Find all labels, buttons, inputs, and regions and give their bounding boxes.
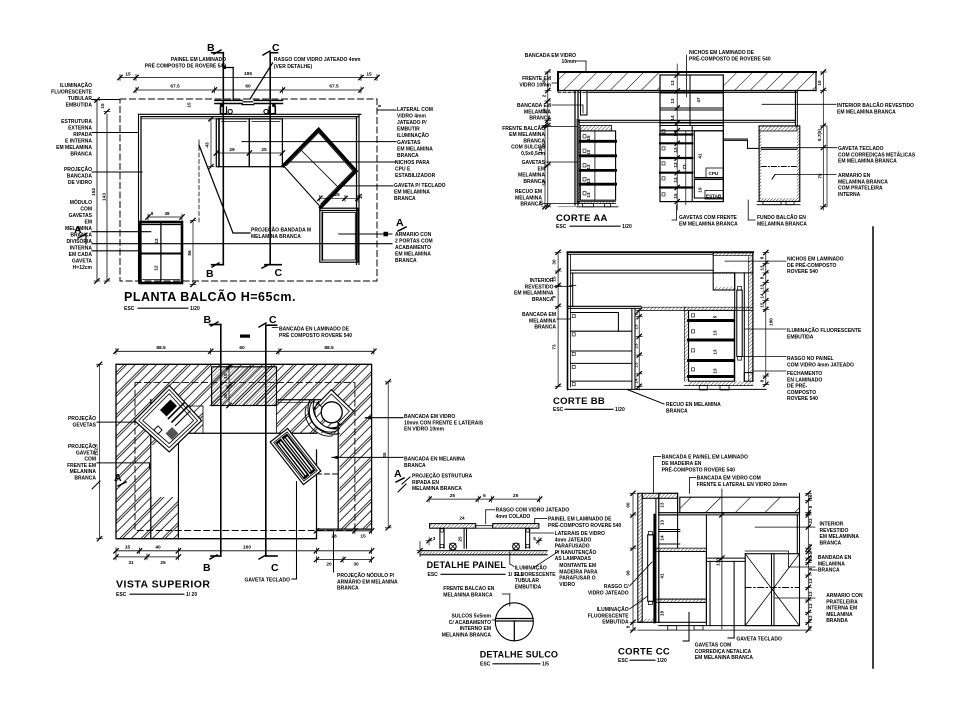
- dim 29 25: [216, 152, 282, 154]
- svg-text:DETALHE PAINEL: DETALHE PAINEL: [427, 560, 507, 570]
- niche dim line vertical: [676, 64, 678, 210]
- svg-text:BRANCA: BRANCA: [520, 202, 542, 208]
- svg-text:FLUORESCENTE: FLUORESCENTE: [51, 90, 93, 96]
- left dims CC: [632, 493, 634, 630]
- nichos right wall zipper BB: [749, 256, 753, 382]
- svg-text:ACABAMENTO: ACABAMENTO: [395, 245, 431, 251]
- svg-text:13: 13: [808, 615, 813, 621]
- view: VISTA SUPERIOR: [67, 314, 484, 598]
- svg-text:BANCADA EM VIDRO: BANCADA EM VIDRO: [525, 53, 576, 59]
- recuo label BB: [627, 389, 664, 404]
- svg-text:BANCADA EN LAMINADO DE: BANCADA EN LAMINADO DE: [279, 327, 350, 333]
- left label leaders: [92, 99, 120, 101]
- svg-text:VIDRO JATEADO: VIDRO JATEADO: [588, 590, 629, 596]
- left module base: [577, 202, 616, 204]
- svg-text:AS LAMPADAS: AS LAMPADAS: [555, 556, 592, 562]
- svg-text:PROJEÇÃO: PROJEÇÃO: [68, 443, 96, 450]
- svg-text:CORTE BB: CORTE BB: [553, 396, 605, 407]
- svg-text:25: 25: [450, 493, 456, 499]
- svg-text:ESC: ESC: [116, 592, 127, 598]
- diamond niche cpu rotated: [283, 129, 356, 207]
- svg-text:10mm CON FRENTE E LATERAIS: 10mm CON FRENTE E LATERAIS: [404, 420, 484, 426]
- svg-text:16: 16: [808, 494, 813, 500]
- svg-text:MELAMINA: MELAMINA: [65, 226, 92, 232]
- svg-text:8: 8: [760, 276, 765, 279]
- svg-text:RASGO C/: RASGO C/: [604, 584, 629, 590]
- right module base: [757, 201, 800, 203]
- svg-text:13: 13: [586, 178, 591, 184]
- svg-text:MONTANTE EM: MONTANTE EM: [559, 563, 596, 569]
- svg-text:H=12cm: H=12cm: [73, 265, 93, 271]
- dim row2: [136, 89, 361, 91]
- left column cells CC: [655, 498, 657, 622]
- left monitor plan: [135, 385, 202, 452]
- middle divider BB: [631, 308, 633, 389]
- svg-text:60: 60: [239, 345, 245, 351]
- svg-text:13: 13: [634, 324, 639, 330]
- svg-text:31: 31: [128, 560, 134, 566]
- top bar hatch CC: [642, 493, 677, 498]
- svg-text:EXTERNA: EXTERNA: [68, 126, 92, 132]
- svg-text:MELAMINA BRANCA: MELAMINA BRANCA: [838, 179, 888, 185]
- svg-text:BRANCA: BRANCA: [532, 297, 554, 303]
- inner vline under band: [572, 273, 574, 306]
- svg-text:23: 23: [808, 518, 813, 524]
- inner boundary lines: [178, 432, 316, 434]
- plan wall left: [138, 114, 140, 283]
- counter hatch strip CC: [656, 548, 707, 551]
- bancada melamina leader CC: [745, 550, 788, 552]
- svg-text:JATEADO P/: JATEADO P/: [397, 120, 427, 126]
- svg-text:BRANCA: BRANCA: [70, 233, 92, 239]
- svg-text:43: 43: [205, 142, 211, 148]
- svg-text:13: 13: [713, 349, 718, 355]
- svg-text:5: 5: [713, 315, 718, 318]
- svg-text:BRANCA: BRANCA: [534, 325, 556, 331]
- svg-text:GAVETAS: GAVETAS: [522, 160, 546, 166]
- svg-text:SULCOS 5x5mm: SULCOS 5x5mm: [452, 614, 492, 620]
- svg-text:MELAMINA: MELAMINA: [515, 195, 542, 201]
- svg-text:15: 15: [586, 135, 591, 141]
- right wall CC: [796, 515, 798, 554]
- bottom CC: [638, 619, 655, 623]
- vdim right vista: [387, 382, 389, 528]
- svg-text:PRATELEIRA: PRATELEIRA: [826, 599, 858, 605]
- outer outline vista: [116, 364, 372, 538]
- center vline CC: [721, 489, 723, 629]
- svg-text:BRANCA: BRANCA: [529, 116, 551, 122]
- leader armario: [339, 233, 392, 235]
- svg-text:88.5: 88.5: [324, 345, 334, 351]
- page divider vertical line: [872, 227, 874, 668]
- svg-text:6: 6: [483, 493, 486, 499]
- svg-text:180: 180: [769, 318, 774, 326]
- svg-text:EMBUTIDA: EMBUTIDA: [515, 584, 542, 590]
- svg-text:FLUORESCENTE: FLUORESCENTE: [588, 613, 630, 619]
- svg-text:RASGO COM VIDRO JATEADO: RASGO COM VIDRO JATEADO: [496, 508, 570, 514]
- view: PLANTA BALCAO plan: [74, 42, 406, 287]
- svg-text:3: 3: [433, 536, 436, 541]
- drawer unit BB: [684, 307, 688, 381]
- svg-text:ROVERE 540: ROVERE 540: [787, 396, 818, 402]
- svg-text:10mm: 10mm: [562, 59, 577, 65]
- svg-text:8: 8: [808, 625, 813, 628]
- svg-text:GEVETAS: GEVETAS: [72, 422, 96, 428]
- svg-text:B: B: [204, 314, 213, 326]
- svg-text:GAVETA: GAVETA: [72, 259, 92, 265]
- niche module mid-top: [216, 119, 249, 167]
- svg-text:12: 12: [154, 265, 159, 271]
- svg-text:PARAFUSAR O: PARAFUSAR O: [559, 576, 595, 582]
- svg-text:FRENTE EM: FRENTE EM: [67, 463, 96, 469]
- svg-text:ESTRUTURA: ESTRUTURA: [61, 119, 92, 125]
- svg-text:PROJEÇÃO BANDADA M: PROJEÇÃO BANDADA M: [251, 227, 311, 234]
- svg-text:DE PRÉ-COMPOSTO: DE PRÉ-COMPOSTO: [787, 261, 836, 269]
- svg-text:MELANINA: MELANINA: [70, 469, 97, 475]
- svg-text:1/20: 1/20: [622, 224, 632, 230]
- svg-text:LATERAIS DE VIDRO: LATERAIS DE VIDRO: [555, 531, 605, 537]
- svg-text:EM MELAMINA: EM MELAMINA: [395, 252, 431, 258]
- left module drawers: [580, 131, 615, 200]
- svg-text:CORREDIÇA NETALICA: CORREDIÇA NETALICA: [695, 649, 752, 655]
- svg-text:MELAMINA BRANCA: MELAMINA BRANCA: [251, 234, 301, 240]
- armario CC: [745, 554, 799, 626]
- labels CC bottom: [733, 561, 735, 638]
- mid dim BB: [638, 310, 640, 390]
- svg-text:1/ 20: 1/ 20: [186, 592, 197, 598]
- dense glass block: [212, 367, 277, 406]
- svg-text:14: 14: [358, 194, 364, 200]
- svg-text:EMBUTIDA: EMBUTIDA: [66, 103, 93, 109]
- svg-text:BANCADA EN MELANINA: BANCADA EN MELANINA: [404, 457, 466, 463]
- view: DETALHE SULCO: [442, 586, 558, 668]
- counter BB: [568, 305, 642, 307]
- svg-text:28: 28: [331, 534, 337, 540]
- svg-text:VISTA SUPERIOR: VISTA SUPERIOR: [116, 579, 211, 591]
- svg-text:REVESTIDO: REVESTIDO: [820, 528, 849, 534]
- svg-text:CPU: CPU: [709, 171, 719, 176]
- svg-text:FRENTE E LATERAL EN VIDRO 10mm: FRENTE E LATERAL EN VIDRO 10mm: [697, 482, 788, 488]
- svg-text:15: 15: [760, 302, 765, 308]
- svg-text:CORTE AA: CORTE AA: [556, 213, 608, 224]
- svg-text:BRANCA: BRANCA: [820, 540, 842, 546]
- svg-text:13: 13: [760, 265, 765, 271]
- svg-text:130: 130: [716, 558, 721, 566]
- panel clips right: [272, 104, 275, 107]
- svg-text:BANDADA EN: BANDADA EN: [818, 555, 852, 561]
- svg-text:18: 18: [817, 80, 822, 86]
- svg-text:PROJEÇÃO: PROJEÇÃO: [68, 415, 96, 422]
- right wall corte AA: [795, 91, 797, 126]
- svg-text:41: 41: [660, 573, 665, 579]
- right dims CC: [807, 493, 809, 630]
- svg-text:BRANCA: BRANCA: [395, 258, 417, 264]
- svg-text:BANCADA EM: BANCADA EM: [517, 103, 551, 109]
- svg-text:CPU E: CPU E: [395, 167, 411, 173]
- svg-text:ARMARIO CON: ARMARIO CON: [395, 232, 432, 238]
- view: CORTE BB: [514, 250, 862, 414]
- svg-text:BRANCA: BRANCA: [818, 568, 840, 574]
- svg-text:COM: COM: [80, 207, 92, 213]
- svg-text:RIPADA EN: RIPADA EN: [412, 480, 439, 486]
- svg-text:15: 15: [125, 72, 131, 78]
- svg-text:RECUO EM: RECUO EM: [515, 189, 542, 195]
- svg-text:P/ NANUTENÇÃO: P/ NANUTENÇÃO: [555, 549, 597, 556]
- svg-text:25: 25: [160, 560, 166, 566]
- svg-text:GAVETA TECLADO: GAVETA TECLADO: [245, 578, 291, 584]
- top panel laminado bar: [215, 99, 242, 101]
- thick black inner wall CC: [653, 515, 655, 622]
- outer shape vista hatched bands: [116, 364, 178, 538]
- svg-text:EM MELAMINA: EM MELAMINA: [509, 132, 545, 138]
- top band bottom: [571, 269, 714, 271]
- svg-text:160: 160: [243, 544, 251, 550]
- svg-text:56: 56: [187, 250, 193, 256]
- svg-text:TUBULAR: TUBULAR: [68, 96, 93, 102]
- step under counter: [723, 138, 747, 140]
- svg-text:MELAMINA BRANCA: MELAMINA BRANCA: [412, 486, 462, 492]
- svg-text:29: 29: [229, 147, 235, 153]
- outer walls BB: [568, 251, 754, 253]
- svg-text:DIVISÓRIA: DIVISÓRIA: [66, 237, 92, 245]
- svg-text:14: 14: [670, 115, 675, 121]
- svg-text:35: 35: [382, 452, 387, 458]
- svg-text:1/20: 1/20: [657, 658, 667, 664]
- svg-text:DE VIDRO: DE VIDRO: [68, 180, 92, 186]
- armario leader CC: [775, 597, 815, 599]
- svg-text:B: B: [206, 268, 215, 280]
- proj modulo armario label: [333, 532, 335, 572]
- svg-text:13: 13: [634, 343, 639, 349]
- long leader line A-A: [92, 243, 392, 245]
- svg-text:18: 18: [660, 611, 665, 617]
- svg-text:EM: EM: [85, 220, 93, 226]
- bottom bar painel: [420, 550, 547, 552]
- svg-text:COMPOSTO: COMPOSTO: [787, 390, 816, 396]
- svg-text:INTERIOR: INTERIOR: [530, 278, 554, 284]
- svg-text:BRANCA: BRANCA: [523, 179, 545, 185]
- svg-text:LATERAL COM: LATERAL COM: [397, 107, 433, 113]
- svg-text:INTERIOR: INTERIOR: [820, 522, 844, 528]
- svg-text:FRENTE BALCAO EN: FRENTE BALCAO EN: [443, 586, 495, 592]
- svg-text:CORTE CC: CORTE CC: [618, 647, 670, 658]
- svg-text:88.5: 88.5: [156, 345, 166, 351]
- svg-text:15: 15: [100, 103, 105, 109]
- svg-text:98: 98: [626, 570, 631, 576]
- armario plan right-bottom: [320, 208, 358, 262]
- svg-text:EM MELAMINA: EM MELAMINA: [394, 190, 430, 196]
- svg-text:(VER DETALHE): (VER DETALHE): [274, 64, 313, 70]
- svg-text:13: 13: [634, 362, 639, 368]
- svg-text:EM MELANINA BRANCA: EM MELANINA BRANCA: [695, 655, 754, 661]
- svg-text:13: 13: [660, 520, 665, 526]
- svg-text:1.5: 1.5: [808, 551, 813, 558]
- svg-text:FUNDO BALCÃO EN: FUNDO BALCÃO EN: [757, 214, 806, 221]
- svg-text:PROJEÇÃO ESTRUTURA: PROJEÇÃO ESTRUTURA: [412, 473, 473, 480]
- svg-text:ESC: ESC: [480, 662, 491, 668]
- nichos box top right BB: [713, 253, 753, 273]
- left wall zipper CC: [638, 493, 642, 622]
- svg-text:GAVETA P/ TECLADO: GAVETA P/ TECLADO: [394, 183, 446, 189]
- svg-text:VIDRO 10mm: VIDRO 10mm: [519, 82, 551, 88]
- svg-text:B: B: [207, 42, 216, 54]
- svg-text:EN VIDRO 10mm: EN VIDRO 10mm: [404, 427, 445, 433]
- svg-text:8: 8: [626, 625, 631, 628]
- svg-text:2: 2: [542, 94, 547, 97]
- svg-text:EM CADA: EM CADA: [69, 252, 93, 258]
- svg-text:2 PORTAS COM: 2 PORTAS COM: [395, 239, 433, 245]
- svg-text:13: 13: [760, 284, 765, 290]
- svg-text:1/20: 1/20: [615, 407, 625, 413]
- top dim vista: [116, 350, 374, 352]
- svg-text:MELAMINA: MELAMINA: [529, 318, 556, 324]
- svg-text:1/ 12.5: 1/ 12.5: [508, 572, 524, 578]
- svg-text:BRANDA: BRANDA: [826, 618, 848, 624]
- svg-text:COM PRATELEIRA: COM PRATELEIRA: [838, 186, 883, 192]
- svg-text:NICHOS EM LAMINADO: NICHOS EM LAMINADO: [787, 257, 844, 263]
- svg-text:PARAFUSADO: PARAFUSADO: [555, 544, 590, 550]
- svg-text:20: 20: [326, 562, 332, 568]
- svg-text:13: 13: [670, 80, 675, 86]
- svg-text:BRANCA: BRANCA: [404, 463, 426, 469]
- keyboard plan: [270, 428, 321, 484]
- svg-text:PROJEÇÃO: PROJEÇÃO: [64, 166, 92, 173]
- leader projecao bancada diagonal: [199, 145, 233, 233]
- drawer base BB: [689, 381, 753, 385]
- svg-text:4mm JATEADO: 4mm JATEADO: [555, 537, 592, 543]
- dim row1: [120, 77, 377, 79]
- svg-text:13: 13: [660, 502, 665, 508]
- svg-text:PLANTA BALCÃO H=65cm.: PLANTA BALCÃO H=65cm.: [124, 289, 296, 304]
- panel clips left: [220, 104, 223, 107]
- svg-text:GAVETAS: GAVETAS: [397, 140, 421, 146]
- svg-text:C/ ACABAMENTO: C/ ACABAMENTO: [449, 620, 491, 626]
- svg-text:DE PRÉ-: DE PRÉ-: [787, 382, 808, 390]
- left module top hatch strip: [580, 125, 611, 131]
- svg-text:13: 13: [808, 578, 813, 584]
- svg-text:C: C: [271, 562, 280, 574]
- svg-text:13: 13: [586, 192, 591, 198]
- svg-text:13: 13: [670, 98, 675, 104]
- svg-text:EM MELAMINA BRANCA: EM MELAMINA BRANCA: [838, 159, 897, 165]
- svg-text:B: B: [203, 562, 212, 574]
- svg-text:BANCADA EM: BANCADA EM: [522, 312, 556, 318]
- dashed keyboard proj: [317, 473, 340, 475]
- bottom dims vista: [116, 550, 372, 552]
- svg-text:2: 2: [808, 543, 813, 546]
- svg-text:EMBUTIR: EMBUTIR: [397, 127, 420, 133]
- svg-text:PRÉ-COMPOSTO ROVERE 540: PRÉ-COMPOSTO ROVERE 540: [662, 466, 735, 474]
- svg-text:EM MELAMINA BRANCA: EM MELAMINA BRANCA: [679, 221, 738, 227]
- left dim col BB: [557, 252, 559, 386]
- svg-text:GAVETA: GAVETA: [76, 450, 96, 456]
- svg-text:1/20: 1/20: [190, 306, 200, 312]
- view: DETALHE PAINEL: [417, 493, 621, 590]
- svg-text:REVESTIDO: REVESTIDO: [525, 284, 554, 290]
- svg-text:60: 60: [626, 502, 631, 508]
- svg-text:ESC: ESC: [556, 224, 567, 230]
- svg-text:PROJEÇÃO NÓDULO P/: PROJEÇÃO NÓDULO P/: [337, 571, 395, 579]
- glass band CC: [680, 497, 800, 513]
- svg-text:VIDRO 4mm: VIDRO 4mm: [397, 114, 426, 120]
- svg-text:9: 9: [151, 211, 154, 216]
- svg-text:MÓDULO: MÓDULO: [70, 198, 92, 206]
- view: CORTE AA: [502, 50, 916, 230]
- svg-text:C: C: [275, 267, 284, 279]
- svg-text:5: 5: [377, 104, 382, 107]
- svg-text:INTERNO EM: INTERNO EM: [460, 626, 491, 632]
- svg-text:2: 2: [808, 558, 813, 561]
- right module corte AA: [759, 126, 800, 202]
- svg-text:EM MELAMINA: EM MELAMINA: [56, 145, 92, 151]
- shelves left BB: [571, 312, 619, 314]
- section line C vertical: [269, 53, 271, 265]
- svg-text:MELAMINA: MELAMINA: [518, 173, 545, 179]
- svg-text:41: 41: [698, 153, 703, 159]
- svg-text:INTERNA EM: INTERNA EM: [826, 606, 857, 612]
- svg-text:BRANCA: BRANCA: [337, 586, 359, 592]
- svg-text:ESC: ESC: [618, 658, 629, 664]
- svg-text:BANCADA EM VIDRO: BANCADA EM VIDRO: [404, 414, 455, 420]
- plan walls top: [139, 113, 362, 115]
- svg-text:30: 30: [353, 562, 359, 568]
- lamp symbols painel: [449, 543, 456, 550]
- svg-text:PRÉ COMPOSTO ROVERE 540: PRÉ COMPOSTO ROVERE 540: [279, 331, 352, 339]
- svg-text:RIPADA: RIPADA: [73, 132, 92, 138]
- svg-text:13: 13: [586, 164, 591, 170]
- dashed projection gaveta: [182, 222, 184, 283]
- svg-text:INTERNA: INTERNA: [70, 246, 93, 252]
- dim 43 vertical: [210, 119, 212, 167]
- svg-text:13: 13: [713, 330, 718, 336]
- svg-text:BRANCA: BRANCA: [397, 153, 419, 159]
- svg-text:MELANINA BRANCA: MELANINA BRANCA: [442, 632, 492, 638]
- svg-text:FRENTE EM: FRENTE EM: [522, 76, 551, 82]
- svg-text:25: 25: [334, 192, 340, 198]
- section line C vista: [265, 325, 267, 556]
- gaveta teclado label: [296, 482, 298, 579]
- svg-text:COM SULCOS: COM SULCOS: [511, 145, 546, 151]
- svg-text:30: 30: [223, 393, 228, 399]
- svg-text:25: 25: [261, 147, 267, 153]
- svg-text:5: 5: [533, 536, 536, 541]
- svg-text:8: 8: [808, 505, 813, 508]
- svg-text:A: A: [114, 472, 123, 484]
- svg-text:1/5: 1/5: [542, 662, 549, 668]
- svg-text:TUBULAR: TUBULAR: [515, 578, 540, 584]
- svg-text:6: 6: [634, 312, 639, 315]
- posts painel: [439, 528, 441, 548]
- svg-text:ILUMINAÇÃO FLUORESCENTE: ILUMINAÇÃO FLUORESCENTE: [787, 327, 862, 334]
- svg-text:24: 24: [459, 516, 465, 521]
- svg-text:BRANCA: BRANCA: [523, 138, 545, 144]
- svg-text:67.5: 67.5: [329, 84, 339, 90]
- left vertical dims: [96, 100, 98, 281]
- right dim col BB: [765, 253, 767, 385]
- interior leader CC: [755, 526, 815, 528]
- counter line: [578, 119, 796, 121]
- dim line detalhe painel: [429, 498, 540, 500]
- svg-text:PAINEL EM LAMINADO DE: PAINEL EM LAMINADO DE: [548, 517, 612, 523]
- svg-text:DE MADEIRA EN: DE MADEIRA EN: [662, 461, 702, 467]
- svg-text:73: 73: [682, 164, 687, 170]
- svg-text:BANCADA: BANCADA: [67, 174, 93, 180]
- svg-text:EM: EM: [538, 166, 546, 172]
- svg-text:4mm COLADO: 4mm COLADO: [496, 514, 531, 520]
- svg-text:EMBUTIDA: EMBUTIDA: [602, 620, 629, 626]
- svg-text:15: 15: [187, 102, 192, 108]
- svg-text:ESC: ESC: [553, 407, 564, 413]
